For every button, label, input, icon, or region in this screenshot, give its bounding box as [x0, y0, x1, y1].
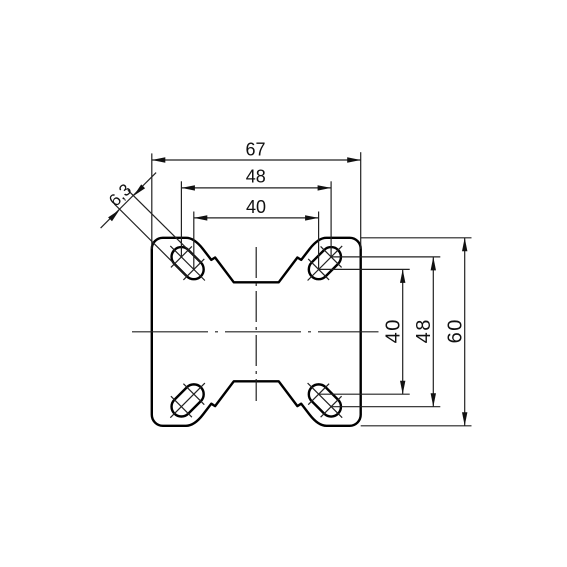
svg-text:40: 40: [382, 318, 404, 343]
plate outline: [152, 238, 361, 426]
dim 60 extension line bottom: [361, 425, 472, 427]
dim 48 right extension line top: [331, 256, 440, 258]
dim 67 dimension line: [152, 159, 361, 161]
slot TL inner cross tick: [183, 259, 204, 280]
dim 6,3 dimension line: [101, 173, 157, 229]
slot TR inner cross tick: [308, 259, 329, 280]
slot BR: [305, 380, 345, 420]
dim 6,3 tangent extension line upper: [128, 190, 201, 262]
svg-text:40: 40: [246, 197, 266, 217]
dim 40 top extension line left: [193, 212, 195, 270]
dim 60 extension line top: [361, 237, 472, 239]
dim 48 right extension line bottom: [331, 406, 440, 408]
slot TL: [167, 243, 207, 283]
dim 40 top dimension line: [194, 217, 319, 219]
dim 60 dimension line: [464, 238, 466, 426]
slot BL inner cross tick: [183, 384, 204, 405]
dim 40 top extension line right: [318, 212, 320, 270]
slot TL axis centreline: [170, 246, 205, 281]
slot BR axis centreline: [308, 383, 343, 418]
dim 40 right extension line top: [319, 268, 410, 270]
svg-text:67: 67: [245, 140, 265, 160]
slot TR axis centreline: [308, 246, 343, 281]
slot BL axis centreline: [170, 383, 205, 418]
dim 48 top extension line right: [330, 181, 332, 257]
slot TR outer cross tick: [321, 246, 342, 267]
slot BL outer cross tick: [171, 396, 192, 417]
vertical centreline: [255, 247, 257, 401]
slot BR outer cross tick: [321, 396, 342, 417]
dim 48 right dimension line: [432, 257, 434, 407]
slot TL outer cross tick: [171, 246, 192, 267]
slot BL: [167, 380, 207, 420]
dim 40 right dimension line: [402, 269, 404, 394]
horizontal centreline: [132, 331, 379, 333]
dim 48 top dimension line: [181, 187, 331, 189]
slot BR inner cross tick: [308, 384, 329, 405]
slot TR: [305, 243, 345, 283]
dim 67 extension line left: [151, 153, 153, 249]
dim 67 extension line right: [360, 152, 362, 249]
svg-text:60: 60: [445, 318, 467, 343]
dim 48 top extension line left: [180, 181, 182, 257]
dim 40 right extension line bottom: [319, 393, 410, 395]
svg-text:48: 48: [413, 318, 435, 343]
dim 6,3 tangent extension line lower: [114, 204, 187, 277]
svg-text:48: 48: [246, 167, 266, 187]
